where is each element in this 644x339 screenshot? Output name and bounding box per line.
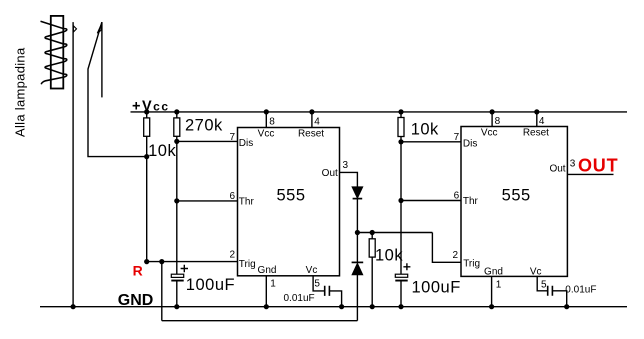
label Alla lampadina	[13, 47, 28, 137]
svg-text:4: 4	[539, 116, 545, 127]
U1 labels	[229, 117, 348, 290]
node GND-relay	[71, 304, 76, 309]
node Dis1	[174, 139, 179, 144]
label 10k R4	[375, 246, 403, 264]
U2 pin 1 wire	[491, 276, 493, 306]
svg-text:7: 7	[454, 132, 460, 143]
diode D1	[352, 187, 363, 198]
svg-text:Thr: Thr	[463, 196, 479, 207]
svg-text:8: 8	[495, 116, 501, 127]
svg-text:270k: 270k	[185, 117, 223, 135]
wire Trig2 elbow	[432, 233, 461, 263]
svg-text:Reset: Reset	[523, 128, 549, 139]
svg-text:1: 1	[496, 279, 502, 290]
svg-text:0.01uF: 0.01uF	[284, 293, 315, 304]
svg-text:Out: Out	[322, 168, 338, 179]
capacitor C2 bottom lead	[400, 282, 402, 307]
svg-text:100uF: 100uF	[186, 276, 235, 294]
node GND-C3	[339, 304, 344, 309]
svg-text:Vcc: Vcc	[258, 129, 275, 140]
node Vcc-pin4 U1	[309, 109, 314, 114]
svg-text:10k: 10k	[375, 246, 403, 264]
relay armature wedge	[97, 24, 101, 33]
node Thr2	[398, 198, 403, 203]
capacitor C1 plus sign	[181, 265, 188, 272]
resistor R1 10k leads	[146, 112, 148, 262]
node Vcc-pin8 U2	[490, 109, 495, 114]
U1 pin 4 stub	[311, 112, 313, 128]
svg-text:Trig: Trig	[239, 259, 256, 270]
node R4-top	[370, 230, 375, 235]
label OUT (red)	[578, 156, 618, 176]
wire Out2	[567, 173, 613, 175]
svg-text:Vc: Vc	[530, 266, 542, 277]
svg-text:555: 555	[276, 187, 305, 205]
node Vcc-pin8 U1	[264, 109, 269, 114]
node GND-pin1 U1	[264, 304, 269, 309]
wire Thr2	[401, 200, 461, 202]
svg-text:Dis: Dis	[239, 138, 253, 149]
svg-text:5: 5	[314, 279, 320, 290]
node Vcc-pin4 U2	[534, 109, 539, 114]
U2 pin 5 wire	[537, 276, 567, 306]
U1 pin 1 wire	[265, 276, 267, 307]
U1 pin 5 wire	[313, 276, 342, 307]
wire Thr1	[177, 200, 238, 202]
svg-text:Out: Out	[549, 164, 565, 175]
capacitor C1 100uF plates	[171, 274, 183, 277]
resistor R3 10k leads	[400, 112, 402, 274]
node GND-C1	[174, 304, 179, 309]
node GND-C2	[398, 304, 403, 309]
resistor R2 270k leads	[176, 112, 178, 274]
wire D1 to D2	[356, 199, 358, 263]
node GND-pin1 U2	[489, 304, 494, 309]
label 0.01uF C3	[284, 293, 315, 304]
svg-text:GND: GND	[118, 292, 154, 309]
node Thr1	[174, 198, 179, 203]
wire Out1	[340, 172, 358, 187]
svg-text:R: R	[133, 263, 143, 279]
op 555 U1 box	[238, 128, 340, 276]
resistor R3 10k body	[398, 118, 404, 137]
node Trig1-R1	[144, 259, 149, 264]
svg-text:Gnd: Gnd	[258, 265, 277, 276]
wire feedback bottom horizontal	[162, 320, 358, 322]
U1 pin 8 stub	[265, 112, 267, 128]
svg-text:Trig: Trig	[463, 259, 480, 270]
svg-text:Vcc: Vcc	[481, 128, 498, 139]
svg-text:2: 2	[229, 250, 235, 261]
resistor R1 10k body	[144, 118, 150, 136]
svg-text:100uF: 100uF	[412, 278, 461, 296]
svg-text:3: 3	[570, 158, 576, 169]
label R (red)	[133, 263, 143, 279]
svg-text:0.01uF: 0.01uF	[565, 285, 596, 296]
svg-text:Thr: Thr	[239, 197, 255, 208]
relay armature	[88, 22, 147, 157]
svg-text:+Vcc: +Vcc	[132, 99, 170, 115]
wire feedback vertical from Trig1	[161, 262, 163, 321]
capacitor C2 100uF plates	[395, 274, 407, 277]
svg-text:3: 3	[343, 160, 349, 171]
GND rail	[40, 306, 627, 308]
relay NC contact wire	[101, 22, 103, 97]
wire Dis1	[177, 140, 238, 142]
svg-text:Dis: Dis	[463, 139, 477, 150]
op 555 U2 box	[461, 127, 567, 277]
node Vcc-R3	[398, 109, 403, 114]
relay contact pole wire	[72, 22, 74, 307]
label GND	[118, 292, 154, 309]
wire feedback from diode D2	[356, 275, 358, 321]
U2 labels	[452, 116, 575, 290]
svg-text:5: 5	[541, 279, 547, 290]
U2 pin 4 stub	[536, 112, 538, 127]
Vcc rail	[131, 111, 628, 113]
svg-text:8: 8	[269, 117, 275, 128]
label 100uF C1	[186, 276, 235, 294]
node D1-D2	[355, 230, 360, 235]
label 555 U2	[502, 186, 531, 204]
svg-text:4: 4	[314, 117, 320, 128]
label 270k	[185, 117, 223, 135]
svg-text:Vc: Vc	[306, 265, 318, 276]
capacitor C2 plus sign	[403, 263, 410, 270]
node relay-R1	[144, 154, 149, 159]
label 10k R1	[148, 142, 176, 160]
label 100uF C2	[412, 278, 461, 296]
svg-text:10k: 10k	[148, 142, 176, 160]
node Dis2	[398, 139, 403, 144]
capacitor C3 0.01uF plates	[325, 286, 330, 296]
wire Dis2	[401, 141, 461, 143]
diode D2	[352, 261, 364, 263]
label +Vcc	[132, 99, 170, 115]
svg-text:Reset: Reset	[298, 129, 324, 140]
node Vcc-R1	[144, 109, 149, 114]
svg-text:2: 2	[452, 250, 458, 261]
capacitor C4 0.01uF plates	[548, 286, 553, 296]
wire junction horizontal to Trig2 elbow	[357, 232, 432, 234]
svg-text:555: 555	[502, 186, 531, 204]
svg-text:1: 1	[270, 279, 276, 290]
label 555 U1	[276, 187, 305, 205]
resistor R4 10k body	[369, 239, 375, 257]
svg-text:Gnd: Gnd	[484, 266, 503, 277]
U2 pin 8 stub	[491, 112, 493, 127]
svg-text:10k: 10k	[411, 120, 439, 138]
svg-text:7: 7	[229, 132, 235, 143]
svg-text:Alla lampadina: Alla lampadina	[13, 47, 28, 137]
node GND-C4	[564, 304, 569, 309]
label 0.01uF C4	[565, 285, 596, 296]
node Trig1-feedback	[159, 259, 164, 264]
relay coil K1 body	[51, 16, 64, 89]
resistor R2 270k body	[174, 118, 180, 136]
svg-text:6: 6	[454, 191, 460, 202]
wire Trig1	[147, 261, 238, 263]
svg-text:OUT: OUT	[578, 156, 618, 176]
svg-text:6: 6	[229, 191, 235, 202]
relay coil K1 winding	[41, 21, 67, 84]
node Vcc-R2	[174, 109, 179, 114]
capacitor C1 bottom lead	[176, 282, 178, 307]
resistor R4 10k leads	[371, 233, 373, 307]
label 10k R3	[411, 120, 439, 138]
relay contact arrow	[73, 26, 76, 32]
node GND-R4	[370, 304, 375, 309]
